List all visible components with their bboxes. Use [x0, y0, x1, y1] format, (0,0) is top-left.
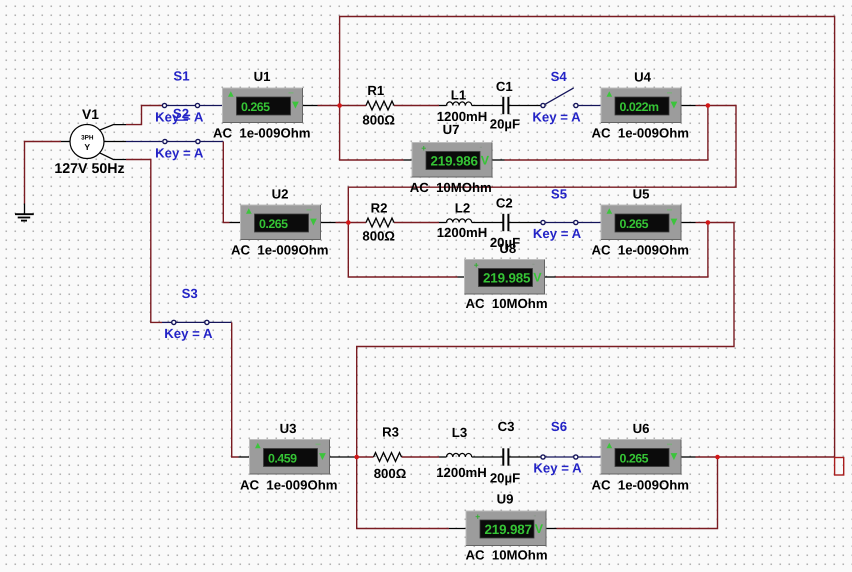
wire L3 to C3: [472, 456, 503, 458]
multimeter U6: [601, 440, 681, 475]
wire U6 to node C2: [696, 456, 718, 458]
svg-text:S5: S5: [551, 187, 567, 202]
svg-text:L3: L3: [452, 425, 467, 440]
svg-text:U9: U9: [497, 492, 514, 507]
switch S3 (closed): [172, 320, 209, 324]
multimeter U3: [250, 440, 330, 475]
svg-text:-: -: [534, 510, 537, 520]
svg-text:+: +: [421, 143, 426, 153]
wire U8 left lead: [458, 276, 465, 278]
wire L1 left lead: [439, 105, 447, 107]
wire U9 left lead: [449, 528, 466, 530]
svg-text:S3: S3: [182, 286, 198, 301]
wire U9 right lead: [546, 528, 557, 530]
svg-text:Key = A: Key = A: [164, 326, 213, 341]
svg-text:V: V: [481, 154, 490, 168]
svg-text:U5: U5: [633, 187, 650, 202]
wire phase A to S1: [126, 106, 162, 125]
svg-text:C1: C1: [496, 79, 513, 94]
wire U3 right lead: [330, 456, 356, 458]
wire L1 to C1: [472, 105, 503, 107]
svg-text:U7: U7: [443, 122, 460, 137]
svg-text:219.987: 219.987: [485, 522, 532, 537]
switch S6 (closed): [541, 455, 578, 459]
wire S6 to U6: [578, 456, 602, 458]
wire S3 left lead: [162, 321, 172, 323]
wire node C1 to R3: [355, 456, 374, 458]
wire U7 left lead: [404, 159, 413, 161]
svg-text:127V 50Hz: 127V 50Hz: [54, 161, 124, 177]
svg-text:0.022m: 0.022m: [620, 100, 660, 114]
svg-text:AC 1e-009Ohm: AC 1e-009Ohm: [592, 243, 689, 258]
svg-text:R2: R2: [371, 201, 388, 216]
wire phase C down to S3: [126, 160, 162, 323]
svg-text:AC 1e-009Ohm: AC 1e-009Ohm: [240, 478, 337, 493]
svg-text:219.985: 219.985: [483, 270, 531, 285]
svg-text:0.459: 0.459: [268, 451, 297, 465]
wire S2 down to U2: [223, 142, 229, 223]
svg-text:+: +: [475, 512, 480, 522]
wire top rail: [340, 17, 835, 458]
wire phase B to S2: [126, 141, 162, 143]
wire U5 to node B2: [696, 222, 708, 224]
svg-text:-: -: [480, 141, 483, 151]
svg-text:Key = A: Key = A: [532, 110, 581, 125]
wire V1 left lead: [61, 141, 70, 143]
wire U2 left lead: [230, 222, 241, 224]
svg-text:AC 1e-009Ohm: AC 1e-009Ohm: [592, 126, 689, 141]
svg-text:0.265: 0.265: [259, 217, 288, 231]
wire U8 right lead: [545, 276, 556, 278]
wire R1 to L1: [394, 105, 439, 107]
wire V1 phase A lead: [100, 125, 127, 131]
svg-text:Key = A: Key = A: [533, 226, 582, 241]
svg-text:U2: U2: [272, 187, 289, 202]
junction node B1: [346, 220, 351, 225]
svg-text:1200mH: 1200mH: [436, 465, 487, 480]
svg-text:C2: C2: [496, 196, 513, 211]
wire U5 right lead: [681, 222, 696, 224]
svg-text:U6: U6: [633, 421, 650, 436]
capacitor C1: [503, 97, 508, 114]
wire S2 right lead: [200, 141, 223, 143]
svg-text:20µF: 20µF: [490, 116, 520, 131]
wire U1 right lead: [303, 105, 318, 107]
svg-text:0.265: 0.265: [620, 451, 649, 465]
wire U4 right lead: [681, 105, 696, 107]
wire V1 phase B lead: [104, 141, 126, 143]
junction node C2: [715, 455, 720, 460]
label S3: [182, 286, 198, 301]
multimeter U1: [223, 88, 303, 123]
svg-text:800Ω: 800Ω: [362, 229, 395, 244]
svg-text:V: V: [533, 271, 542, 285]
svg-text:U3: U3: [280, 421, 297, 436]
label S2: [173, 106, 189, 121]
wire node A1 down to U7: [340, 106, 404, 161]
wire U7 to node A2: [505, 106, 708, 161]
wire U1 to R1: [318, 105, 367, 107]
switch S1 (closed): [162, 103, 199, 107]
svg-text:219.986: 219.986: [431, 153, 478, 168]
wire L3 left lead: [439, 456, 447, 458]
svg-text:R1: R1: [367, 83, 384, 98]
svg-text:S4: S4: [551, 69, 568, 84]
multimeter U8: [465, 258, 545, 294]
wire U2 right lead: [321, 222, 336, 224]
svg-text:S6: S6: [551, 419, 567, 434]
wire stub rectangle at right rail bottom: [835, 458, 844, 476]
svg-text:L2: L2: [455, 201, 470, 216]
svg-text:AC 1e-009Ohm: AC 1e-009Ohm: [592, 478, 689, 493]
svg-text:+: +: [474, 260, 479, 270]
svg-text:-: -: [532, 258, 535, 268]
wire L2 to C2: [472, 222, 503, 224]
label S1: [173, 69, 189, 84]
junction node A2: [706, 103, 711, 108]
svg-text:R3: R3: [382, 425, 399, 440]
wire S4 to U4: [578, 105, 601, 107]
wire S3 down to U3: [232, 322, 239, 457]
wire node B2 down to U8 right: [556, 223, 708, 278]
inductor L3: [446, 453, 471, 457]
wire node C1 down to U9: [357, 457, 449, 529]
wire C3 to S6: [509, 456, 541, 458]
ground: [15, 214, 34, 220]
switch S5 (closed): [541, 220, 578, 224]
wire U3 left lead: [239, 456, 250, 458]
wire C2 to S5: [509, 222, 541, 224]
svg-text:U4: U4: [634, 70, 652, 85]
wire S1 to U1: [200, 105, 223, 107]
junction node B2: [706, 220, 711, 225]
multimeter U5: [601, 205, 681, 240]
multimeter U4: [601, 88, 681, 123]
svg-text:V: V: [535, 522, 544, 536]
source V1 (3-phase wye): [70, 125, 104, 159]
wire S3 right lead: [209, 321, 232, 323]
wire V1 phase C lead: [100, 153, 127, 160]
wire U2 to R2: [336, 222, 367, 224]
multimeter U9: [466, 510, 546, 546]
junction node A1: [337, 103, 342, 108]
wire node A2 to U8 left: [348, 106, 736, 278]
svg-text:S2: S2: [173, 106, 189, 121]
wire C1 to S4: [509, 105, 541, 107]
svg-text:20µF: 20µF: [490, 470, 520, 485]
svg-text:U8: U8: [499, 241, 516, 256]
wire ground stub: [24, 204, 26, 214]
label S5: [551, 187, 567, 202]
svg-text:AC 1e-009Ohm: AC 1e-009Ohm: [231, 243, 328, 258]
svg-text:Y: Y: [84, 142, 90, 152]
switch S2 (closed): [163, 139, 200, 143]
wire V1 to ground: [25, 142, 62, 204]
wire U6 right lead: [681, 456, 696, 458]
svg-text:AC 10MOhm: AC 10MOhm: [410, 180, 492, 195]
wire R3 to L3: [402, 456, 440, 458]
inductor L2: [446, 219, 471, 223]
multimeter U2: [241, 205, 321, 240]
svg-text:800Ω: 800Ω: [362, 113, 395, 128]
svg-text:L1: L1: [451, 88, 466, 103]
wire R2 to L2: [394, 222, 439, 224]
svg-text:0.265: 0.265: [620, 217, 649, 231]
multimeter U7: [412, 141, 492, 177]
wire node B2 to node C1: [357, 223, 734, 458]
resistor R2: [366, 218, 394, 227]
svg-text:C3: C3: [498, 419, 515, 434]
switch S4 (open): [541, 88, 578, 108]
junction node C1: [354, 455, 359, 460]
capacitor C3: [503, 448, 508, 465]
svg-text:Key = A: Key = A: [155, 146, 204, 161]
svg-text:V1: V1: [82, 107, 99, 122]
wire L2 left lead: [439, 222, 447, 224]
resistor R3: [374, 453, 402, 462]
svg-text:AC 10MOhm: AC 10MOhm: [466, 548, 548, 563]
svg-text:0.265: 0.265: [241, 100, 270, 114]
wire U4 to node A2: [696, 105, 708, 107]
svg-text:U1: U1: [254, 69, 271, 84]
label S6: [551, 419, 567, 434]
wire U7 right lead: [492, 159, 505, 161]
svg-text:1200mH: 1200mH: [437, 225, 488, 240]
svg-text:AC 1e-009Ohm: AC 1e-009Ohm: [213, 126, 310, 141]
wire S5 to U5: [578, 222, 601, 224]
svg-text:3PH: 3PH: [81, 135, 94, 142]
wire node C2 to right rail: [718, 456, 835, 458]
resistor R1: [366, 101, 394, 110]
svg-text:800Ω: 800Ω: [374, 466, 407, 481]
svg-text:AC 10MOhm: AC 10MOhm: [466, 296, 548, 311]
inductor L1: [446, 102, 471, 106]
wire U9 to node C2: [557, 457, 718, 529]
svg-text:S1: S1: [173, 69, 189, 84]
svg-text:Key = A: Key = A: [533, 461, 582, 476]
capacitor C2: [503, 214, 508, 231]
